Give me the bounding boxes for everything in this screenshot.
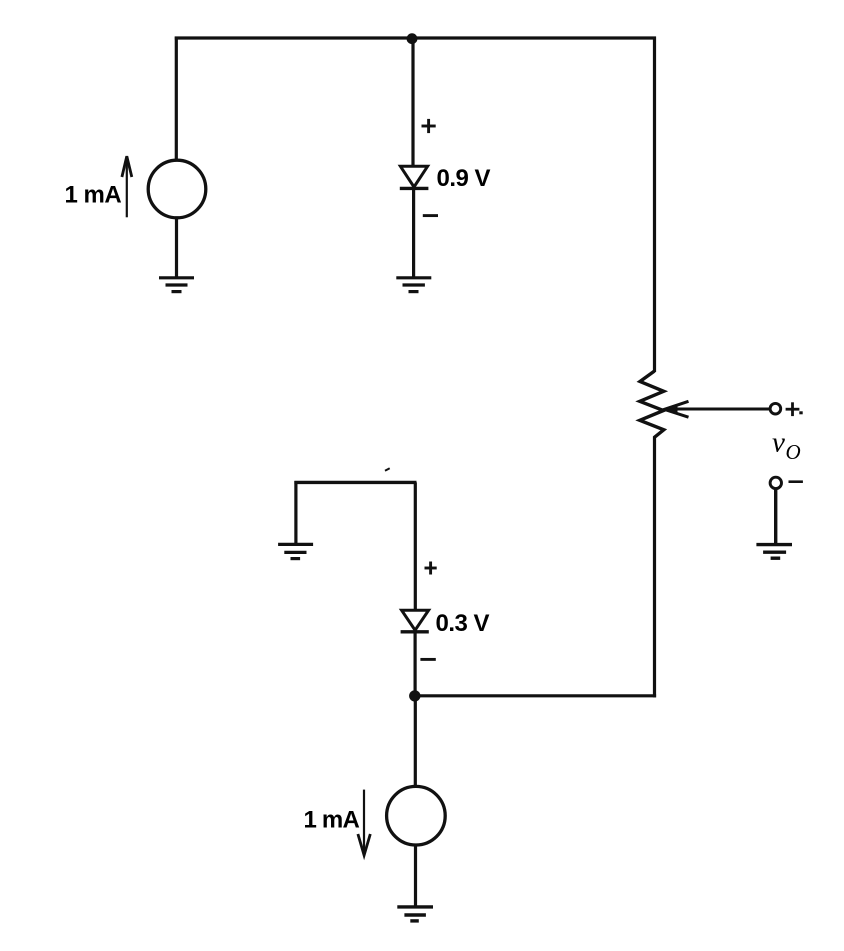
svg-text:O: O (786, 440, 801, 464)
wire left stub vertical to ground (294, 481, 297, 545)
wire current source I2 to ground (414, 845, 417, 907)
svg-text:0.9 V: 0.9 V (437, 165, 491, 192)
wire right vertical from potentiometer down to bottom node (653, 437, 656, 697)
polarity + (anode of D2) (425, 562, 437, 575)
current source I1 1mA (circle) (148, 160, 206, 218)
current source I2 1mA (circle) (387, 786, 446, 845)
potentiometer R (zigzag) (640, 371, 664, 438)
label + (output polarity) (786, 402, 800, 416)
ground (left stub) (278, 544, 313, 558)
terminal circle + output (770, 403, 781, 414)
wire diode D2 down to bottom node (414, 630, 417, 697)
ground (output reference) (756, 545, 792, 559)
svg-text:0.3 V: 0.3 V (436, 610, 490, 637)
polarity − (cathode of D2) (420, 658, 435, 661)
polarity + (anode of D1) (422, 119, 436, 133)
diode D1 (0.9 V) (400, 166, 427, 187)
svg-text:1 mA: 1 mA (65, 182, 122, 209)
wire diode D1 to ground (412, 187, 415, 278)
label − (output polarity) (789, 480, 803, 483)
wire right vertical from top bus down to potentiometer (653, 37, 656, 373)
diode D2 (0.3 V) (402, 610, 429, 630)
node top junction (407, 33, 418, 44)
wire bottom horizontal (node to right branch) (415, 694, 656, 697)
terminal circle − output (770, 477, 781, 488)
wire current source I1 to ground (175, 218, 178, 278)
wire vertical from bottom-left bus down to diode D2 (414, 482, 417, 610)
wire top horizontal bus (175, 36, 656, 39)
ground (below D1) (396, 278, 431, 292)
ground (below I2) (397, 907, 433, 921)
wiper arrow of potentiometer (667, 408, 770, 411)
wire left vertical from top bus to current source (175, 37, 178, 161)
node bottom junction (409, 690, 420, 701)
svg-text:1 mA: 1 mA (304, 807, 360, 834)
wire node down to current source I2 (414, 696, 417, 787)
svg-text:v: v (772, 426, 785, 458)
wire middle vertical from node to diode D1 (411, 38, 414, 167)
wire − terminal to ground (774, 489, 777, 545)
arrow up (I1 current direction) (126, 158, 128, 217)
polarity − (cathode of D1) (423, 214, 438, 217)
ground (below I1) (159, 278, 194, 292)
wire bottom-left horizontal (ground stub to D2 branch) (294, 481, 416, 484)
arrow down (I2 current direction) (363, 790, 365, 853)
